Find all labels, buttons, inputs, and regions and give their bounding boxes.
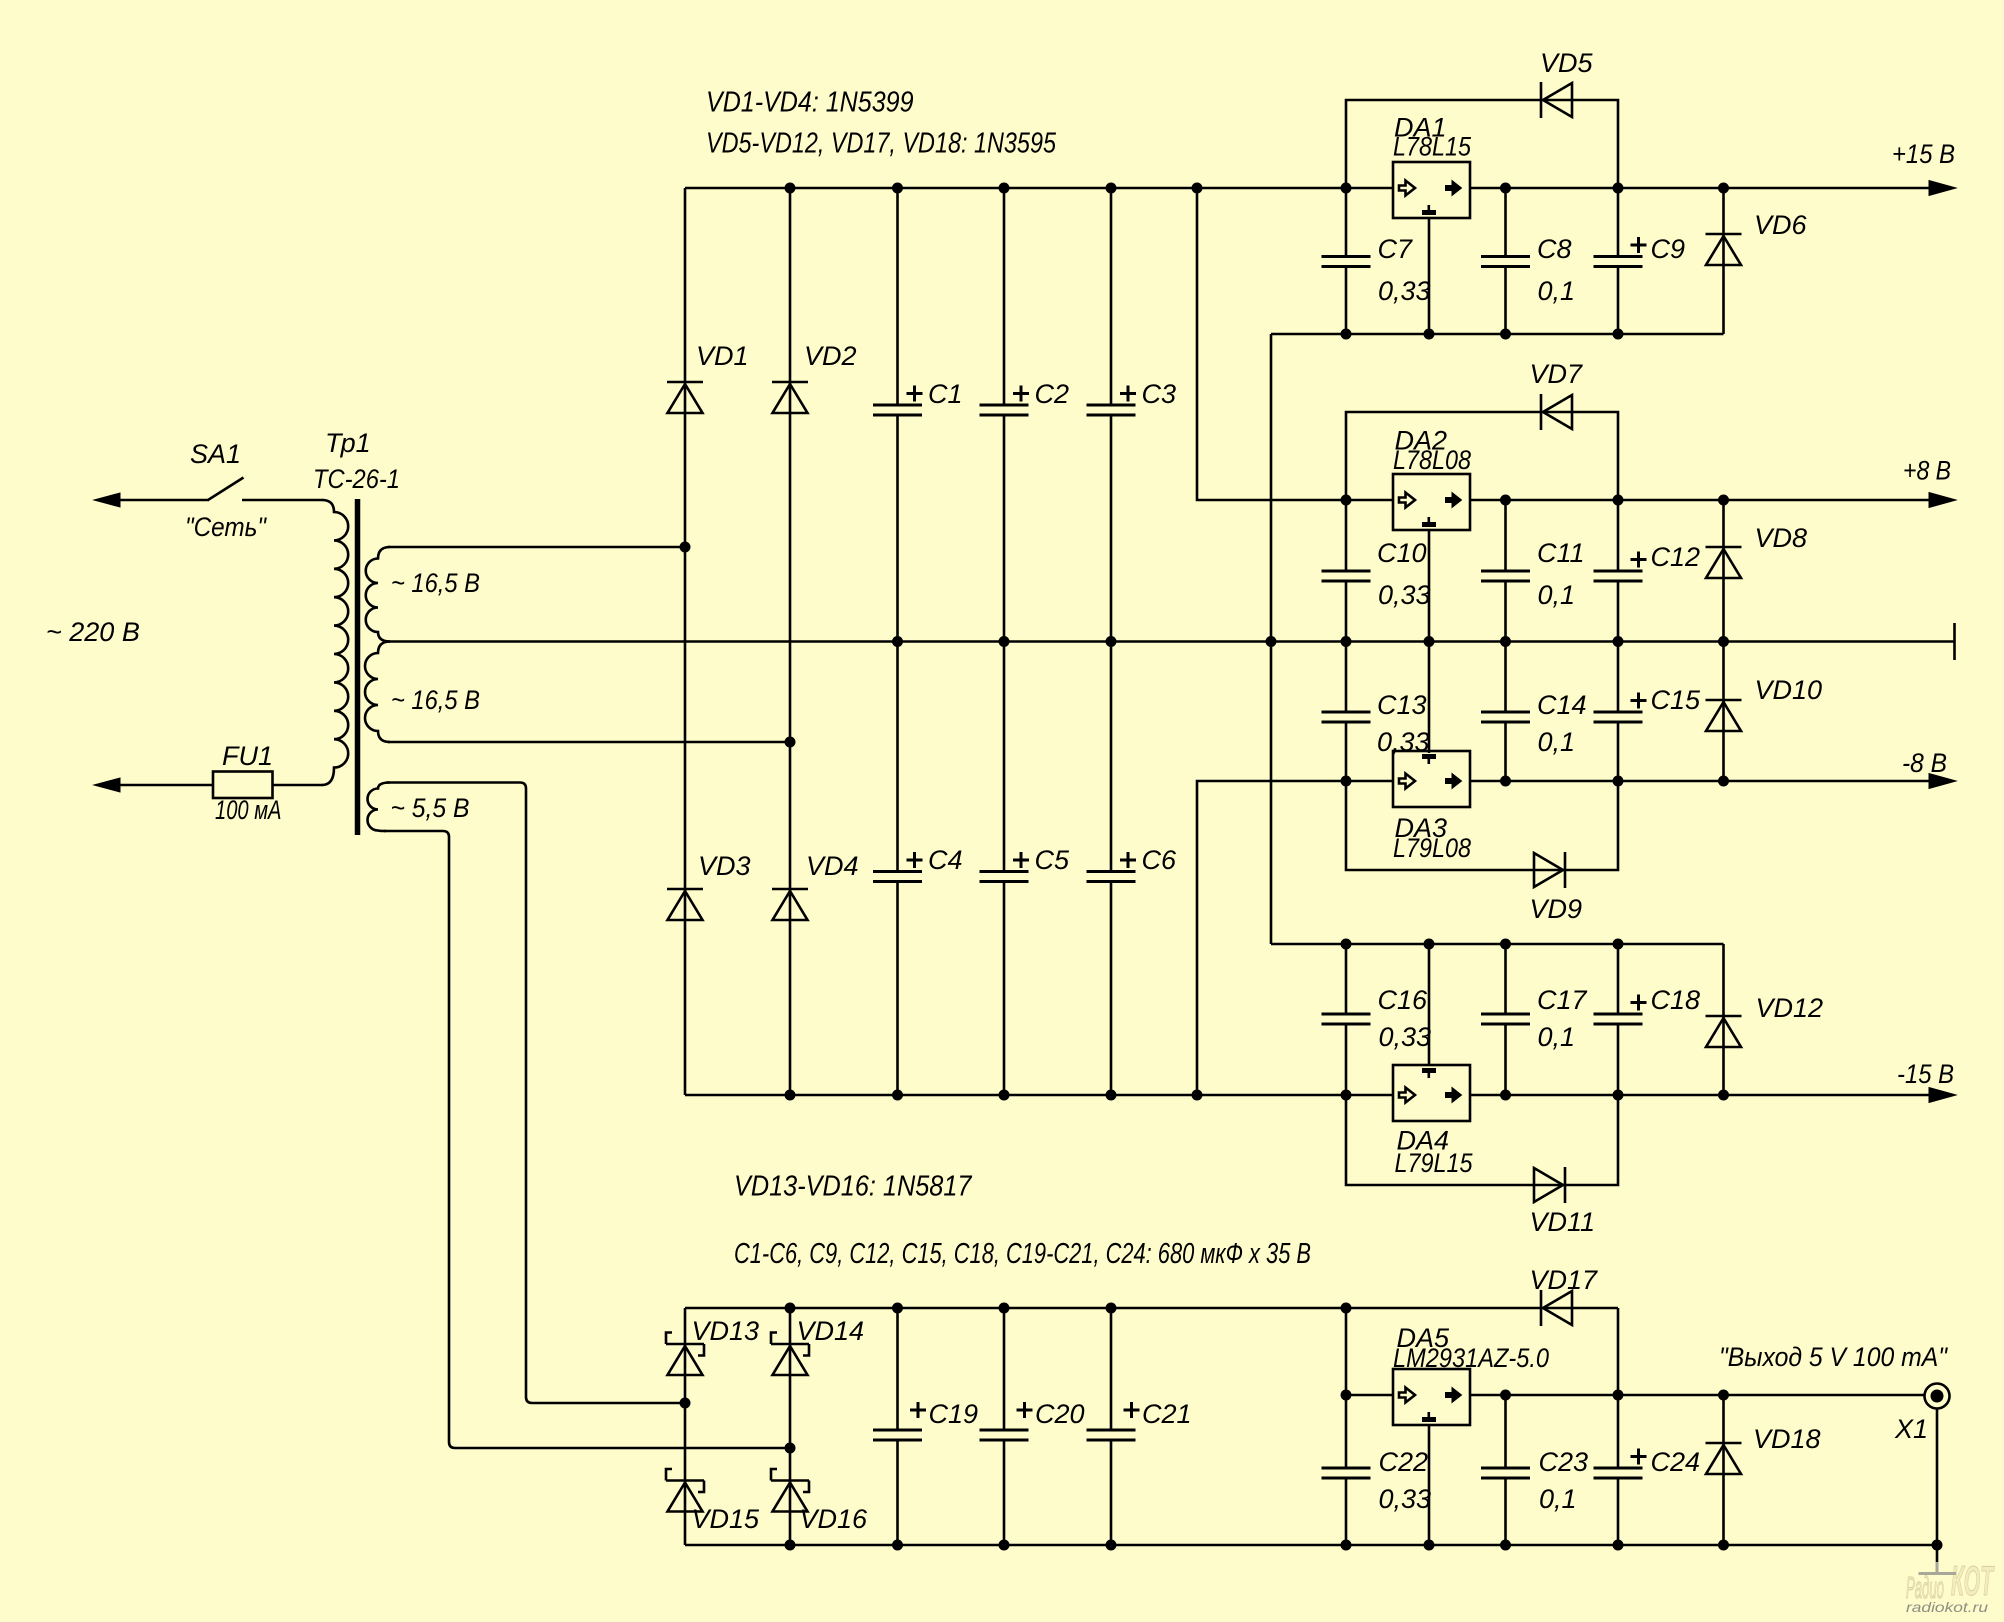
svg-text:VD17: VD17 [1530, 1265, 1599, 1295]
wire: 5V output rail [1470, 1394, 1925, 1397]
svg-text:-15 В: -15 В [1897, 1059, 1954, 1089]
svg-text:VD18: VD18 [1753, 1424, 1821, 1454]
capacitor C22 [1322, 1468, 1371, 1478]
diode VD1 [667, 382, 703, 413]
svg-text:SA1: SA1 [190, 439, 241, 469]
wire: C22 column [1345, 1395, 1348, 1545]
wire: C7 column [1345, 188, 1348, 334]
wire: C23 column [1504, 1395, 1507, 1545]
node DA3 feed bottom [1192, 1090, 1203, 1101]
node DA1 ground [1424, 329, 1435, 340]
svg-text:С1-С6, С9, С12, С15, С18, С19-: С1-С6, С9, С12, С15, С18, С19-С21, С24: … [734, 1238, 1311, 1270]
node C14 bottom [1500, 776, 1511, 787]
svg-text:VD7: VD7 [1530, 359, 1584, 389]
node C2 bottom / C5 top [999, 636, 1010, 647]
connector X1 [1925, 1384, 1950, 1409]
wire: DA2 feed vertical from top rail [1197, 188, 1393, 500]
svg-text:~ 16,5 В: ~ 16,5 В [391, 568, 480, 598]
svg-text:L79L15: L79L15 [1395, 1148, 1474, 1178]
node C3 bottom / C6 top [1106, 636, 1117, 647]
wire: bridge left column [684, 1308, 687, 1545]
node VD8 bottom [1718, 636, 1729, 647]
node C9 bottom [1613, 329, 1624, 340]
node C9 top [1613, 183, 1624, 194]
node bridge left mid [680, 1398, 691, 1409]
wire: mains upper lead to switch [117, 499, 209, 502]
node C8 bottom [1500, 329, 1511, 340]
node C20 top [999, 1303, 1010, 1314]
wire: secondary 2 bottom to VD4 column [388, 741, 790, 744]
wire: DA5 input rail [1346, 1394, 1393, 1397]
wire: secondary 3 bottom feed to bridge right column [384, 831, 790, 1448]
diode VD4 [772, 889, 808, 920]
capacitor C18 [1594, 1014, 1643, 1024]
wire: C10 column [1345, 500, 1348, 642]
svg-text:C24: C24 [1651, 1447, 1701, 1477]
node C13 bottom [1341, 776, 1352, 787]
arrow: -15 В output [1929, 1088, 1956, 1103]
svg-text:C9: C9 [1651, 234, 1686, 264]
diode VD7 [1541, 394, 1572, 430]
diode VD6 [1706, 234, 1742, 265]
node C19 top [892, 1303, 903, 1314]
wire: VD18 column [1722, 1395, 1725, 1545]
node C23 top [1500, 1390, 1511, 1401]
node ground return at center rail [1266, 636, 1277, 647]
node DA4 ground [1424, 939, 1435, 950]
voltage regulator DA1 [1393, 162, 1470, 218]
schottky diode VD13 [666, 1333, 704, 1376]
plus C9 [1631, 237, 1647, 253]
node VD18 top [1718, 1390, 1729, 1401]
wire: VD12 column [1722, 944, 1725, 1095]
wire: +raw top rail [685, 187, 1930, 190]
wire: C16 column [1345, 944, 1348, 1095]
svg-text:C12: C12 [1651, 542, 1701, 572]
node VD2 top [785, 183, 796, 194]
node VD8 top [1718, 495, 1729, 506]
node C11 bottom [1500, 636, 1511, 647]
capacitor C3 [1087, 405, 1136, 415]
node C6 bottom [1106, 1090, 1117, 1101]
svg-text:Тр1: Тр1 [325, 428, 371, 458]
node C3 top [1106, 183, 1117, 194]
svg-text:0,33: 0,33 [1378, 580, 1431, 610]
svg-text:VD1-VD4: 1N5399: VD1-VD4: 1N5399 [706, 87, 914, 119]
node C24 top [1613, 1390, 1624, 1401]
node C21 top [1106, 1303, 1117, 1314]
node C24 bottom [1613, 1540, 1624, 1551]
node bridge right mid [785, 1443, 796, 1454]
svg-text:0,1: 0,1 [1538, 1022, 1576, 1052]
node DA2 ground [1424, 636, 1435, 647]
wire: DA4 ground pin [1428, 944, 1431, 1065]
node DA5 input [1341, 1390, 1352, 1401]
plus C3 [1120, 386, 1136, 402]
wire: center tap ground rail [388, 640, 1954, 643]
svg-text:LM2931AZ-5.0: LM2931AZ-5.0 [1393, 1343, 1549, 1373]
capacitor C19 [873, 1430, 922, 1440]
fuse FU1 [213, 772, 273, 799]
node C16 bottom [1341, 1090, 1352, 1101]
svg-text:VD8: VD8 [1755, 523, 1808, 553]
svg-text:0,33: 0,33 [1379, 1022, 1432, 1052]
wire: DA1 ground return vertical [1270, 334, 1273, 944]
svg-text:0,33: 0,33 [1378, 276, 1431, 306]
grey ground bar under X1 [1919, 1562, 1957, 1574]
wire: C13 column [1345, 642, 1348, 782]
node C20 bottom [999, 1540, 1010, 1551]
diode VD3 [667, 889, 703, 920]
node VD18 bottom [1718, 1540, 1729, 1551]
capacitor C7 [1322, 257, 1371, 267]
wire: VD7 bypass loop [1346, 412, 1618, 500]
wire: DA1 ground pin [1428, 218, 1431, 334]
wire: C15 column [1617, 642, 1620, 782]
wire: DA3 ground pin [1428, 642, 1431, 754]
svg-text:VD5: VD5 [1540, 48, 1594, 78]
svg-text:X1: X1 [1894, 1414, 1928, 1444]
svg-text:C10: C10 [1377, 538, 1427, 568]
node X1 ground [1932, 1540, 1943, 1551]
svg-text:-8 В: -8 В [1902, 748, 1947, 778]
node C17 top [1500, 939, 1511, 950]
capacitor C24 [1594, 1468, 1643, 1478]
transformer secondary winding 2 (~16,5 В lower) [365, 642, 390, 743]
wire: C19 column [896, 1308, 899, 1545]
wire: bridge top rail [685, 1307, 1618, 1310]
node VD16 bottom [785, 1540, 796, 1551]
diode VD5 [1541, 82, 1572, 118]
ground rail end terminal bar [1953, 623, 1956, 660]
wire: mains lower lead to fuse [117, 784, 213, 787]
arrow: +8 В output [1929, 493, 1956, 508]
svg-text:VD1: VD1 [696, 341, 749, 371]
svg-text:C7: C7 [1378, 234, 1413, 264]
wire: C14 column [1504, 642, 1507, 782]
schottky diode VD15 [666, 1469, 704, 1512]
svg-text:C11: C11 [1537, 538, 1585, 568]
node C11 top [1500, 495, 1511, 506]
wire: VD1/VD3 column [684, 188, 687, 1095]
svg-text:VD12: VD12 [1756, 993, 1824, 1023]
plus C24 [1631, 1449, 1647, 1465]
wire: VD9 bypass loop [1346, 781, 1618, 870]
diode VD10 [1706, 700, 1742, 731]
svg-text:VD3: VD3 [698, 851, 751, 881]
svg-text:VD16: VD16 [800, 1504, 869, 1534]
node C7 bottom [1341, 329, 1352, 340]
svg-text:radiokot.ru: radiokot.ru [1906, 1599, 1988, 1615]
wire: bridge right column [789, 1308, 792, 1545]
wire: VD11 bypass loop [1346, 1095, 1618, 1185]
plus C4 [907, 852, 923, 868]
voltage regulator DA4 (flipped) [1393, 1065, 1470, 1121]
wire: secondary 1 top to VD1 column [388, 546, 685, 549]
wire: C8 column [1504, 188, 1507, 334]
wire: switch to transformer primary [242, 499, 323, 502]
wire: X1 down to bottom rail [1936, 1409, 1939, 1546]
svg-text:FU1: FU1 [222, 741, 273, 771]
wire: C11 column [1504, 500, 1507, 642]
node VD4 bottom [785, 1090, 796, 1101]
svg-text:~ 16,5 В: ~ 16,5 В [391, 685, 480, 715]
voltage regulator DA3 (flipped) [1393, 751, 1470, 807]
svg-text:C23: C23 [1539, 1447, 1589, 1477]
wire: VD10 column [1722, 642, 1725, 782]
svg-text:C5: C5 [1035, 845, 1070, 875]
capacitor C17 [1481, 1014, 1530, 1024]
wire: C21 column [1110, 1308, 1113, 1545]
wire: C9 column [1617, 188, 1620, 334]
node VD12 bottom [1718, 1090, 1729, 1101]
node C7 top [1341, 183, 1352, 194]
svg-text:VD14: VD14 [797, 1316, 865, 1346]
wire: C2/C5 column [1003, 188, 1006, 1095]
diode VD11 [1534, 1167, 1565, 1203]
svg-text:VD15: VD15 [692, 1504, 761, 1534]
capacitor C23 [1481, 1468, 1530, 1478]
capacitor C1 [873, 405, 922, 415]
node VD14 top [785, 1303, 796, 1314]
capacitor C14 [1481, 712, 1530, 722]
node DA2 feed top [1192, 183, 1203, 194]
wire: C1/C4 column [896, 188, 899, 1095]
capacitor C15 [1594, 712, 1643, 722]
node C21 bottom [1106, 1540, 1117, 1551]
capacitor C10 [1322, 571, 1371, 581]
capacitor C9 [1594, 257, 1643, 267]
svg-text:~ 5,5 В: ~ 5,5 В [391, 793, 470, 823]
transformer primary winding [322, 500, 348, 785]
plus C6 [1120, 852, 1136, 868]
node: secondary 2 bottom junction [785, 737, 796, 748]
wire: DA5 input vertical [1345, 1308, 1348, 1395]
capacitor C8 [1481, 257, 1530, 267]
plus C15 [1631, 693, 1647, 709]
plus C2 [1013, 386, 1029, 402]
svg-text:C14: C14 [1537, 690, 1587, 720]
node C22 bottom [1341, 1540, 1352, 1551]
svg-text:VD11: VD11 [1530, 1207, 1596, 1237]
transformer secondary winding 1 (~16,5 В upper) [366, 547, 390, 642]
wire: VD6 column [1722, 188, 1725, 334]
node C12 bottom [1613, 636, 1624, 647]
svg-text:C16: C16 [1378, 985, 1429, 1015]
node C10 top [1341, 495, 1352, 506]
node C16 top [1341, 939, 1352, 950]
wire: -8 rail after DA3 [1470, 780, 1930, 783]
node C19 bottom [892, 1540, 903, 1551]
node C12 top [1613, 495, 1624, 506]
svg-text:C19: C19 [929, 1399, 979, 1429]
svg-text:100 мА: 100 мА [215, 795, 282, 825]
schottky diode VD16 [771, 1469, 809, 1512]
wire: VD2/VD4 column [789, 188, 792, 1095]
arrow: -8 В output [1929, 774, 1956, 789]
svg-text:C20: C20 [1035, 1399, 1085, 1429]
voltage regulator DA2 [1393, 474, 1470, 530]
svg-text:C3: C3 [1142, 379, 1177, 409]
svg-text:VD5-VD12, VD17, VD18: 1N3595: VD5-VD12, VD17, VD18: 1N3595 [706, 128, 1057, 160]
wire: C12 column [1617, 500, 1620, 642]
wire: DA2 ground pin [1428, 530, 1431, 642]
svg-text:C4: C4 [928, 845, 963, 875]
svg-text:0,1: 0,1 [1538, 727, 1576, 757]
diode VD2 [772, 382, 808, 413]
node C4 bottom [892, 1090, 903, 1101]
node DA5 ground [1424, 1540, 1435, 1551]
diode VD9 [1534, 852, 1565, 888]
capacitor C20 [980, 1430, 1029, 1440]
capacitor C6 [1087, 872, 1136, 882]
wire: X1 ground stub [1936, 1545, 1939, 1562]
svg-text:"Сеть": "Сеть" [185, 512, 267, 542]
node C23 bottom [1500, 1540, 1511, 1551]
svg-text:VD6: VD6 [1754, 210, 1808, 240]
capacitor C5 [980, 872, 1029, 882]
svg-text:0,1: 0,1 [1538, 580, 1576, 610]
node C2 top [999, 183, 1010, 194]
node C17 bottom [1500, 1090, 1511, 1101]
svg-text:L79L08: L79L08 [1393, 833, 1471, 863]
capacitor C12 [1594, 571, 1643, 581]
node C18 bottom [1613, 1090, 1624, 1101]
svg-text:+15 В: +15 В [1892, 139, 1955, 169]
svg-text:VD9: VD9 [1530, 894, 1583, 924]
capacitor C16 [1322, 1014, 1371, 1024]
svg-text:КОТ: КОТ [1951, 1557, 1995, 1604]
plus C12 [1631, 552, 1647, 568]
arrow: mains lower lead [94, 778, 120, 792]
svg-text:C1: C1 [928, 379, 963, 409]
wire: C18 column [1617, 944, 1620, 1095]
svg-text:VD13: VD13 [692, 1316, 760, 1346]
capacitor C21 [1087, 1430, 1136, 1440]
voltage regulator DA5 [1393, 1369, 1470, 1425]
node C10 bottom [1341, 636, 1352, 647]
plus C1 [907, 386, 923, 402]
arrow: mains upper lead [94, 493, 120, 507]
node C1 top [892, 183, 903, 194]
svg-text:"Выход 5 V 100 mA": "Выход 5 V 100 mA" [1719, 1342, 1948, 1372]
node VD10 bottom [1718, 776, 1729, 787]
wire: VD17 right leg down to output [1617, 1308, 1620, 1395]
diode VD17 [1541, 1290, 1572, 1326]
svg-text:L78L08: L78L08 [1393, 445, 1471, 475]
node C18 top [1613, 939, 1624, 950]
node C5 bottom [999, 1090, 1010, 1101]
svg-text:C21: C21 [1142, 1399, 1192, 1429]
wire: DA4 grounded top rail [1271, 943, 1724, 946]
arrow: +15 В output [1929, 181, 1956, 196]
schottky diode VD14 [771, 1333, 809, 1376]
plus C21 [1124, 1402, 1140, 1418]
wire: C3/C6 column [1110, 188, 1113, 1095]
wire: 5V bottom rail [685, 1544, 1937, 1547]
svg-text:C2: C2 [1035, 379, 1070, 409]
svg-text:VD10: VD10 [1755, 675, 1823, 705]
node C8 top [1500, 183, 1511, 194]
wire: DA3 feed vertical from bottom rail [1197, 781, 1393, 1095]
transformer secondary winding 3 (~5,5 В) [368, 783, 391, 832]
capacitor C2 [980, 405, 1029, 415]
svg-text:C22: C22 [1379, 1447, 1429, 1477]
svg-text:~ 220 В: ~ 220 В [46, 617, 140, 647]
svg-text:C6: C6 [1142, 845, 1177, 875]
wire: DA5 ground pin [1428, 1425, 1431, 1545]
svg-text:C17: C17 [1537, 985, 1588, 1015]
svg-text:C18: C18 [1651, 985, 1701, 1015]
diode VD8 [1706, 547, 1742, 578]
plus C5 [1013, 852, 1029, 868]
svg-text:VD4: VD4 [806, 851, 859, 881]
diode VD18 [1706, 1443, 1742, 1474]
svg-text:L78L15: L78L15 [1393, 132, 1472, 162]
wire: DA1 lower rail [1271, 333, 1724, 336]
svg-text:ТС-26-1: ТС-26-1 [313, 464, 400, 494]
node C15 bottom [1613, 776, 1624, 787]
node: secondary 1 top junction [680, 542, 691, 553]
plus C20 [1017, 1402, 1033, 1418]
svg-text:0,1: 0,1 [1539, 1484, 1577, 1514]
capacitor C11 [1481, 571, 1530, 581]
capacitor C4 [873, 872, 922, 882]
node DA5 input top [1341, 1303, 1352, 1314]
switch SA1 blade [208, 478, 244, 501]
wire: C20 column [1003, 1308, 1006, 1545]
svg-text:0,33: 0,33 [1377, 727, 1430, 757]
transformer Tp1 core [355, 499, 361, 835]
svg-text:VD13-VD16: 1N5817: VD13-VD16: 1N5817 [734, 1171, 973, 1203]
svg-text:C15: C15 [1651, 685, 1702, 715]
wire: C24 column [1617, 1395, 1620, 1545]
wire: -raw bottom rail [685, 1094, 1930, 1097]
plus C18 [1631, 995, 1647, 1011]
svg-text:+8 В: +8 В [1903, 456, 1951, 486]
wire: VD8 column [1722, 500, 1725, 642]
svg-text:C13: C13 [1377, 690, 1427, 720]
wire: C17 column [1504, 944, 1507, 1095]
svg-text:VD2: VD2 [804, 341, 857, 371]
node VD6 top [1718, 183, 1729, 194]
svg-text:0,1: 0,1 [1538, 276, 1576, 306]
node C1 bottom / C4 top [892, 636, 903, 647]
wire: secondary 3 top feed to bridge left column [386, 783, 685, 1404]
wire: +8 rail after DA2 [1470, 499, 1930, 502]
wire: VD5 bypass loop [1346, 100, 1618, 188]
diode VD12 [1706, 1016, 1742, 1047]
capacitor C13 [1322, 712, 1371, 722]
svg-text:0,33: 0,33 [1379, 1484, 1432, 1514]
svg-text:C8: C8 [1537, 234, 1572, 264]
plus C19 [910, 1402, 926, 1418]
